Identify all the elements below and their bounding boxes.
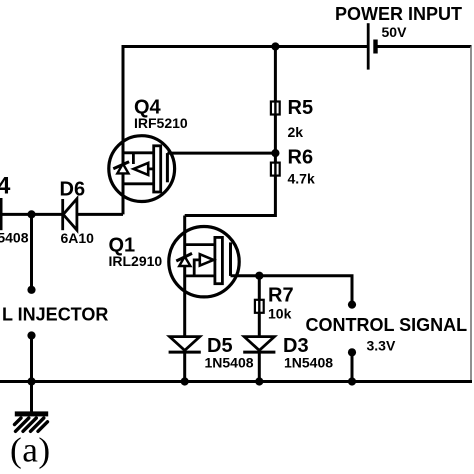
svg-text:IRF5210: IRF5210: [134, 115, 188, 131]
svg-text:6A10: 6A10: [61, 230, 95, 246]
wire Q4 drain vertical from top rail down to D6 node: [122, 45, 125, 214]
node injector terminal 1: [27, 286, 35, 294]
wire control signal terminal 2 to ground rail: [351, 352, 354, 381]
battery 50V power input: [367, 23, 378, 69]
junction node top rail / R5: [271, 42, 279, 50]
svg-text:10k: 10k: [268, 306, 292, 322]
svg-text:50V: 50V: [382, 24, 408, 40]
junction node ground rail / injector: [27, 377, 35, 385]
svg-text:R6: R6: [288, 147, 314, 169]
resistor R7 10k: [255, 298, 264, 314]
junction node gate wire / R7: [255, 272, 263, 280]
node control signal terminal 2: [348, 348, 356, 356]
wire bottom ground rail: [0, 380, 472, 383]
svg-text:(a): (a): [10, 430, 51, 469]
wire Q1 channel vertical (drain to source through circle): [183, 216, 186, 337]
svg-text:3.3V: 3.3V: [367, 338, 396, 354]
junction node ground rail / D3: [255, 377, 263, 385]
junction node ground rail / control return: [348, 377, 356, 385]
wire ground stem: [30, 382, 33, 412]
wire Q4 gate to R5/R6 node: [167, 152, 275, 155]
MOSFET Q1 IRL2910 (n-channel): [169, 227, 239, 297]
svg-text:L INJECTOR: L INJECTOR: [2, 305, 108, 325]
wire D6 anode to Q4 drain: [77, 213, 123, 216]
wire R7 branch from gate wire down to D3: [258, 276, 261, 337]
wire right edge return (thin): [470, 47, 472, 382]
wire D3 cathode to ground rail: [258, 352, 261, 382]
svg-text:4: 4: [0, 173, 11, 200]
diode D5 1N5408: [169, 337, 201, 353]
svg-text:POWER INPUT: POWER INPUT: [335, 4, 462, 24]
wire top rail left segment (50V rail): [123, 45, 368, 48]
wire D5 cathode to ground rail: [183, 352, 186, 382]
wire left edge to D4 region to injector node: [0, 213, 63, 216]
node control signal terminal 1: [348, 301, 356, 309]
svg-text:1N5408: 1N5408: [205, 355, 254, 371]
junction node Q4 gate / R5-R6: [271, 149, 279, 157]
node injector terminal 2: [27, 331, 35, 339]
wire top rail right segment from battery to right edge: [377, 45, 472, 48]
svg-text:CONTROL SIGNAL: CONTROL SIGNAL: [306, 315, 468, 335]
wire R5-R6 branch from top rail down then left to Q1 drain: [185, 45, 276, 216]
svg-text:1N5408: 1N5408: [0, 230, 29, 246]
junction node ground rail / D5: [181, 377, 189, 385]
svg-text:2k: 2k: [288, 124, 304, 140]
wire injector terminal 2 down to ground rail: [30, 336, 33, 382]
svg-text:R7: R7: [268, 285, 294, 307]
ground symbol: [15, 411, 49, 431]
diode D3 1N5408: [243, 337, 275, 353]
svg-text:R5: R5: [288, 97, 314, 119]
svg-text:D6: D6: [60, 179, 86, 201]
resistor R6 4.7k: [271, 161, 280, 177]
diode D6 6A10: [63, 199, 77, 231]
MOSFET Q4 IRF5210 (p-channel): [109, 136, 175, 202]
svg-text:1N5408: 1N5408: [284, 355, 333, 371]
resistor R5 2k: [271, 100, 280, 116]
wire injector node down to injector terminal 1: [30, 214, 33, 289]
svg-text:IRL2910: IRL2910: [109, 253, 163, 269]
diode D4 cathode bar (cut off at left edge): [0, 198, 3, 230]
svg-text:4.7k: 4.7k: [288, 171, 315, 187]
wire Q1 gate to control signal corner: [231, 276, 353, 305]
junction node D4/D6/injector: [27, 210, 35, 218]
